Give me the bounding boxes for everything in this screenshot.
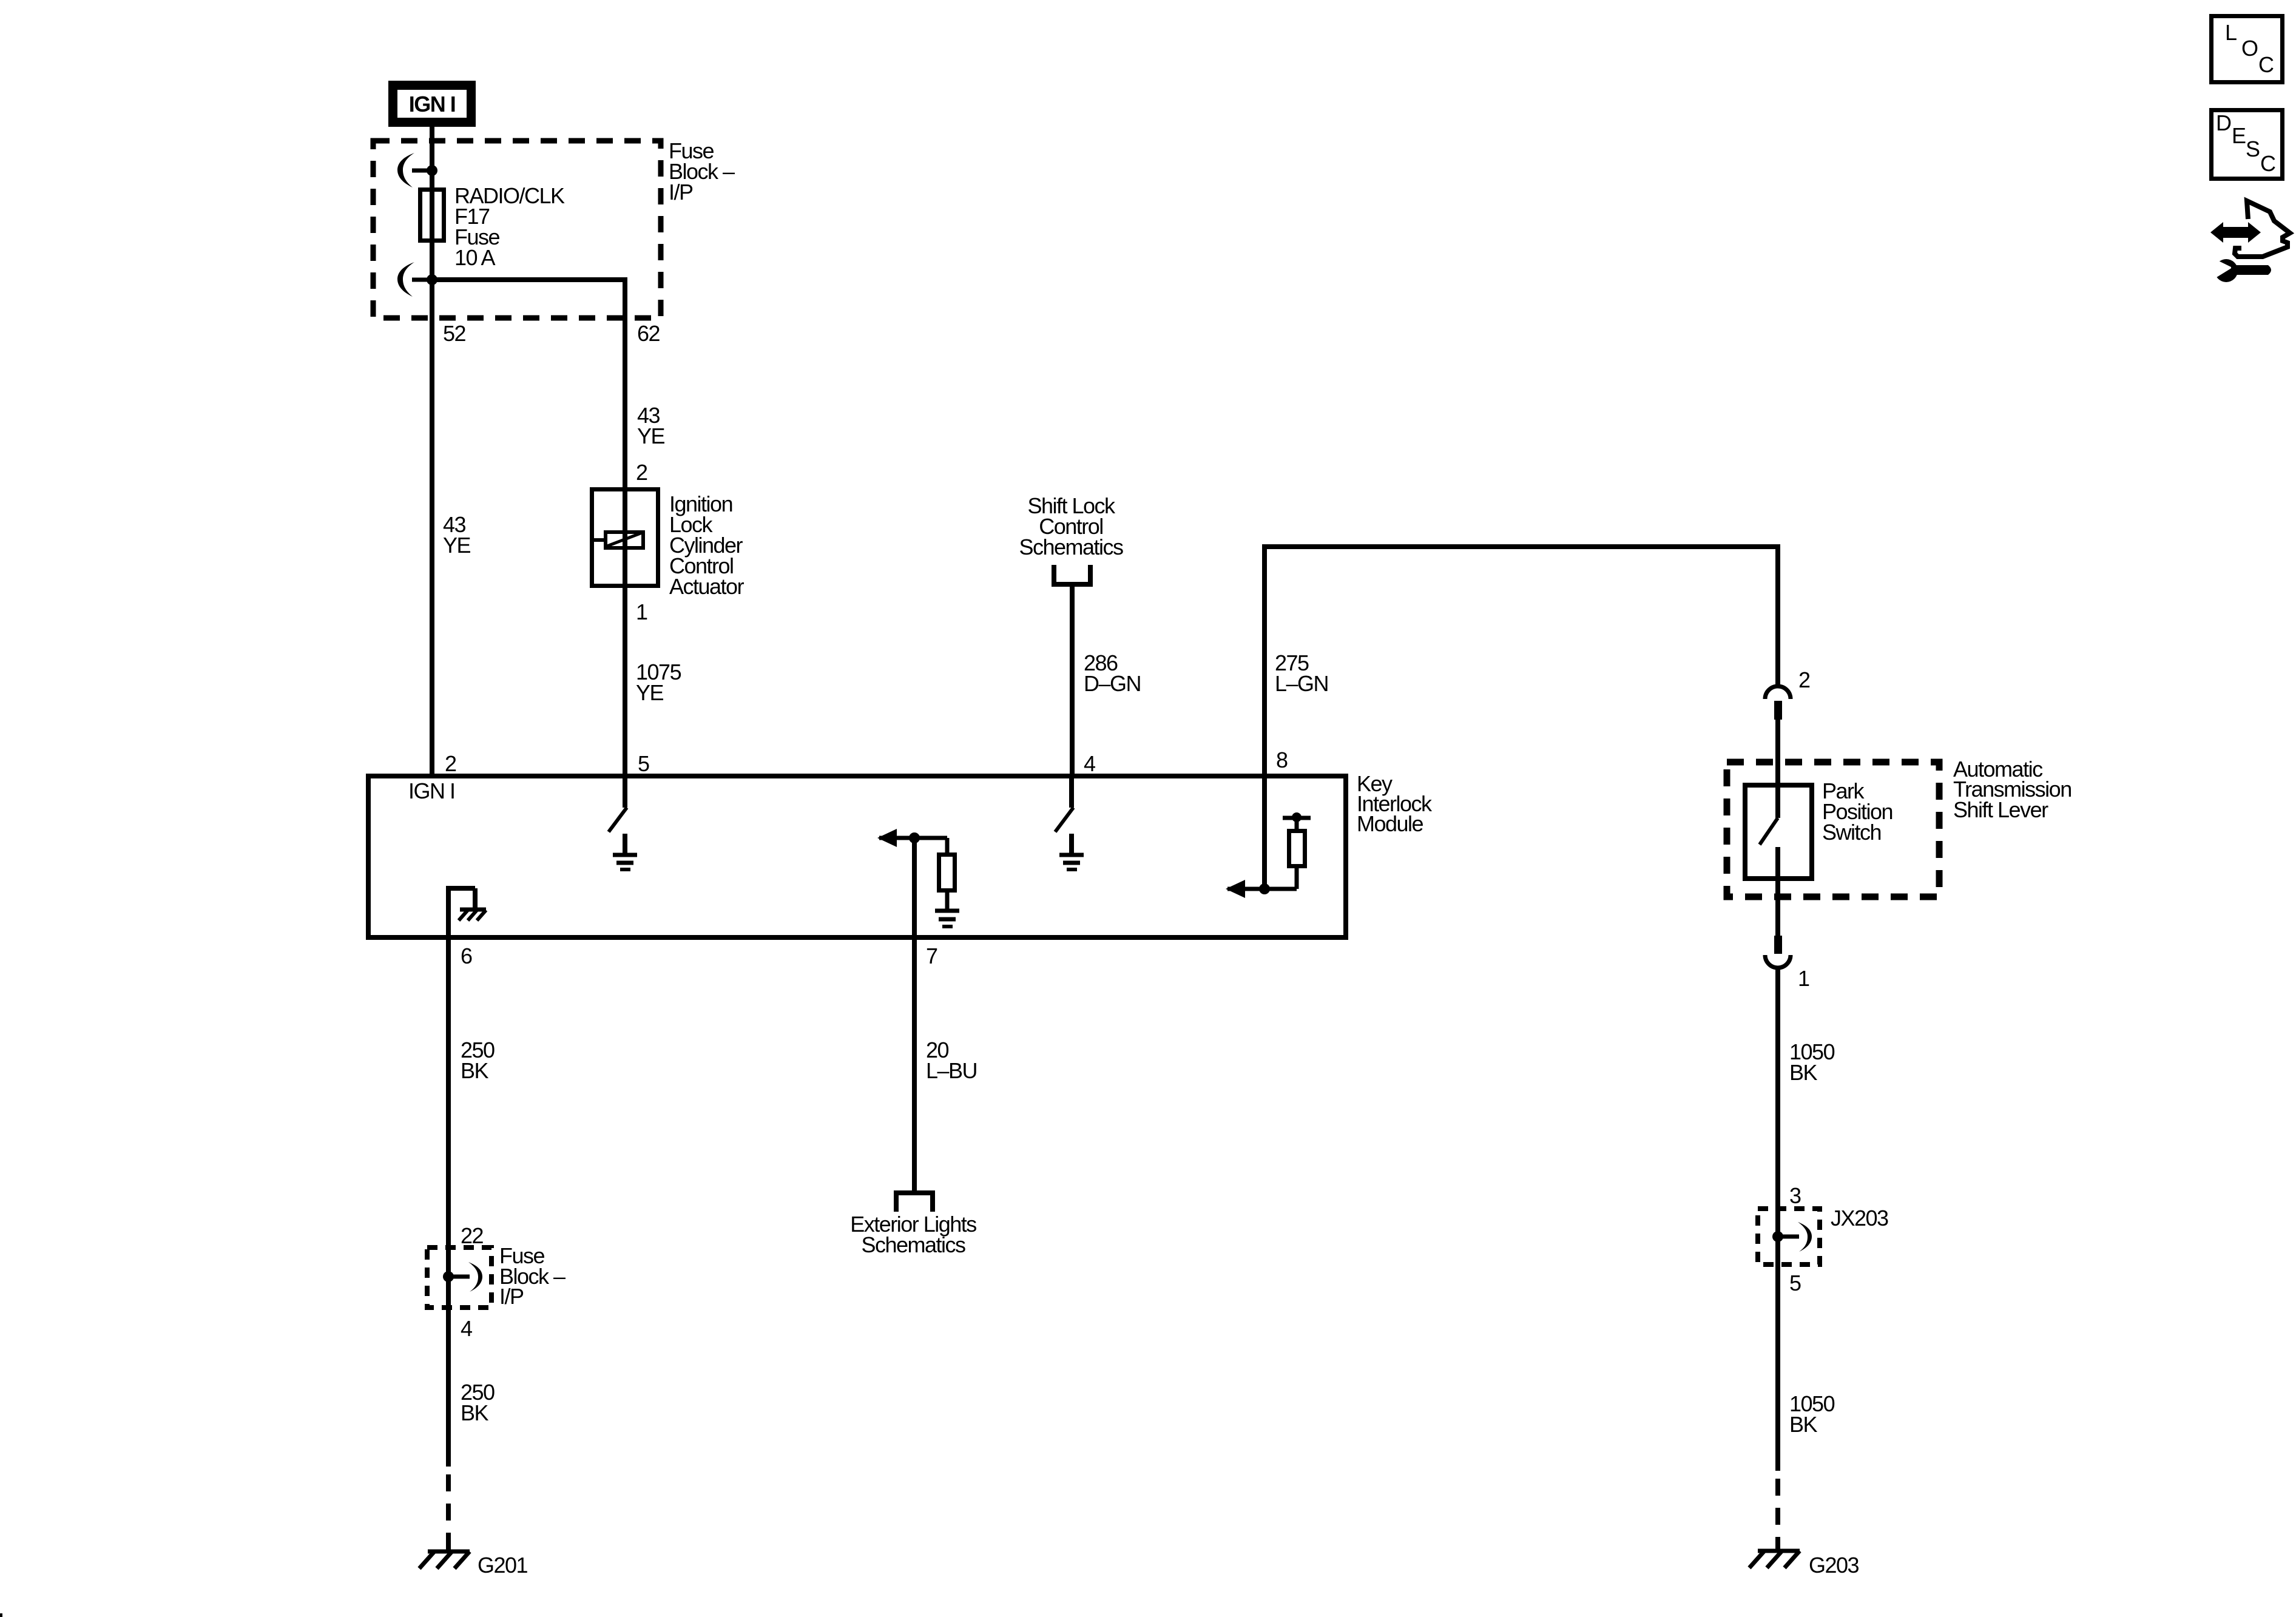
automatic transmission shift lever dashed box (1727, 762, 1939, 897)
pin 6 label below module (461, 944, 472, 968)
svg-text:I/P: I/P (669, 180, 693, 204)
legend box DESC (2212, 110, 2283, 179)
svg-text:8: 8 (1276, 748, 1288, 772)
svg-text:G201: G201 (478, 1553, 528, 1578)
pin 7 label below module (926, 944, 937, 968)
svg-text:IGN I: IGN I (408, 778, 455, 803)
wire label 1075 YE (636, 660, 681, 705)
wire label 1050 BK (lower) (1789, 1391, 1835, 1437)
svg-text:Module: Module (1357, 811, 1423, 836)
wire circuit 275 L-GN (module pin 8 to park switch) (1262, 544, 1778, 889)
svg-text:C: C (2258, 52, 2274, 77)
svg-text:5: 5 (638, 751, 649, 776)
wire circuit 62 (fuse to actuator) (432, 277, 625, 487)
pin 2 label actuator (636, 460, 647, 485)
svg-text:Schematics: Schematics (1019, 535, 1123, 559)
junction block JX203 dashed box (1758, 1209, 1820, 1264)
label Key Interlock Module (1357, 771, 1433, 836)
svg-text:YE: YE (637, 424, 665, 448)
svg-text:2: 2 (636, 460, 647, 485)
node junction dot pin 8 net (1259, 883, 1270, 894)
svg-text:BK: BK (461, 1400, 489, 1425)
svg-text:D–GN: D–GN (1084, 671, 1141, 696)
connector clamp at fuse input (397, 153, 432, 187)
wire circuit 286 D-GN (to module pin 4) (1070, 584, 1075, 776)
svg-text:G203: G203 (1809, 1553, 1859, 1578)
wire label 1050 BK (upper) (1789, 1039, 1835, 1085)
node junction dot in lower fuse block (443, 1271, 454, 1282)
svg-text:IGN I: IGN I (409, 92, 456, 116)
svg-text:YE: YE (636, 680, 664, 705)
power tag IGN I (393, 86, 471, 123)
wire pin 7 internal with junction (912, 838, 917, 937)
svg-text:2: 2 (1798, 667, 1810, 692)
pin 5 label JX203 (1789, 1271, 1801, 1295)
connector clamp in JX203 (1778, 1222, 1812, 1252)
svg-text:10 A: 10 A (454, 245, 496, 270)
svg-text:BK: BK (1789, 1412, 1818, 1437)
internal rail tee at pin 8 resistor (1283, 812, 1311, 831)
arrow output at pin 7 net (877, 829, 947, 847)
legend box LOC (2212, 16, 2283, 83)
fuse block I/P dashed box (top) (373, 141, 661, 318)
label JX203 (1831, 1206, 1888, 1230)
label Fuse Block - I/P (lower) (499, 1243, 566, 1309)
resistor inside module (pin 8 net) (1289, 831, 1305, 890)
off-page reference Exterior Lights Schematics (850, 1193, 976, 1257)
svg-text:Schematics: Schematics (861, 1232, 965, 1257)
svg-text:62: 62 (637, 321, 660, 346)
wire circuit 1050 BK (JX203 to G203) (1775, 1237, 1780, 1471)
legend icon hand outline (2235, 201, 2290, 257)
label Ignition Lock Cylinder Control Actuator (669, 491, 745, 599)
wire circuit 20 L-BU (module pin 7 down) (912, 937, 917, 1193)
fuse RADIO/CLK F17 10A (420, 183, 566, 280)
pin 4 label fuse block (461, 1316, 472, 1341)
svg-text:L–BU: L–BU (926, 1058, 977, 1083)
ground G201 (419, 1551, 528, 1578)
key interlock module box (368, 776, 1346, 937)
pin 52 label (443, 321, 466, 346)
node junction dot in JX203 (1772, 1231, 1783, 1242)
pin 2 label module (445, 751, 456, 776)
wire label 250 BK (lower) (461, 1380, 495, 1425)
arrow output at pin 8 net (1226, 880, 1297, 898)
switch element inside park position switch (1760, 785, 1778, 879)
wire label 275 L-GN (1275, 650, 1328, 696)
svg-text:4: 4 (1084, 751, 1095, 776)
earth ground at pin 5 switch (613, 834, 637, 869)
svg-text:BK: BK (461, 1058, 489, 1083)
ground G203 (1749, 1551, 1859, 1578)
svg-text:2: 2 (445, 751, 456, 776)
pin 3 label JX203 (1789, 1183, 1801, 1208)
svg-text:5: 5 (1789, 1271, 1801, 1295)
fuse block I/P dashed box (lower) (427, 1247, 491, 1308)
connector clamp in lower fuse block (448, 1262, 482, 1292)
svg-text:1: 1 (636, 599, 647, 624)
svg-text:S: S (2246, 137, 2260, 161)
wire pin 2 into park switch (1775, 720, 1780, 788)
wire circuit 52 (fuse to module pin 2) (430, 280, 434, 776)
ignition lock cylinder control actuator box (592, 487, 658, 588)
earth ground at pin 4 switch (1059, 834, 1084, 869)
node junction dot pin 7 net (909, 832, 920, 843)
wire label 43 YE (right) (637, 403, 665, 448)
solenoid symbol inside actuator (590, 532, 643, 548)
node junction dot at fuse output (427, 274, 437, 285)
stray dot bottom-left corner (0, 1613, 2, 1617)
svg-text:JX203: JX203 (1831, 1206, 1888, 1230)
svg-text:Actuator: Actuator (669, 574, 745, 599)
svg-text:L–GN: L–GN (1275, 671, 1328, 696)
label Automatic Transmission Shift Lever (1953, 757, 2071, 822)
off-page reference Shift Lock Control Schematics (1019, 493, 1123, 584)
dashed wire to G203 (1775, 1479, 1780, 1550)
earth ground below resistor (pin 7 net) (935, 911, 959, 927)
park position switch box (1745, 785, 1812, 879)
wire IGN I to fuse F17 (430, 127, 434, 189)
svg-text:22: 22 (461, 1223, 484, 1248)
switch to ground at pin 4 (1055, 776, 1073, 832)
wire label 286 D-GN (1084, 650, 1141, 696)
wire circuit 1050 BK (park switch to JX203) (1775, 968, 1780, 1234)
resistor inside module (pin 7 net) (939, 838, 955, 910)
svg-text:1: 1 (1798, 966, 1809, 991)
chassis ground hook at pin 6 (446, 888, 486, 937)
svg-text:C: C (2260, 151, 2275, 176)
pin 2 label park switch (1798, 667, 1810, 692)
pin 22 label fuse block (461, 1223, 484, 1248)
switch to ground at pin 5 (609, 776, 627, 832)
svg-text:L: L (2225, 20, 2237, 45)
svg-text:O: O (2241, 36, 2258, 61)
node junction dot at fuse input (427, 165, 437, 176)
svg-text:6: 6 (461, 944, 472, 968)
pin 62 label (637, 321, 660, 346)
svg-text:BK: BK (1789, 1060, 1818, 1085)
inline connector at park switch pin 2 (1765, 686, 1791, 720)
legend icon wrench (2206, 255, 2271, 282)
svg-text:D: D (2216, 110, 2231, 135)
svg-text:Switch: Switch (1822, 820, 1881, 845)
svg-text:Shift Lever: Shift Lever (1953, 797, 2048, 822)
inline connector at park switch pin 1 (1765, 936, 1791, 968)
svg-text:3: 3 (1789, 1183, 1801, 1208)
svg-text:4: 4 (461, 1316, 472, 1341)
svg-text:7: 7 (926, 944, 937, 968)
wire label 250 BK (upper) (461, 1038, 495, 1083)
svg-text:I/P: I/P (499, 1284, 524, 1309)
dashed wire to G201 (446, 1474, 451, 1551)
pin 8 label module (1276, 748, 1288, 772)
label Park Position Switch (1822, 778, 1893, 845)
svg-text:52: 52 (443, 321, 466, 346)
label Fuse Block - I/P (top) (669, 138, 735, 204)
pin 4 label module (1084, 751, 1095, 776)
wire circuit 1075 YE (actuator to module pin 5) (623, 588, 627, 776)
wire circuit 250 BK (module pin 6 down) (446, 937, 451, 1274)
svg-text:YE: YE (443, 533, 471, 558)
wire park switch to pin 1 connector (1775, 879, 1780, 936)
pin 1 label park switch (1798, 966, 1809, 991)
svg-text:E: E (2232, 123, 2246, 148)
wire label 43 YE (left) (443, 512, 471, 558)
wire label 20 L-BU (926, 1038, 977, 1083)
net label IGN I inside module (408, 778, 455, 803)
pin 1 label actuator (636, 599, 647, 624)
legend icon double arrow (2210, 222, 2261, 243)
pin 5 label module (638, 751, 649, 776)
wire circuit 250 BK (fuse block to G201) (446, 1277, 451, 1467)
connector clamp at fuse output (397, 262, 432, 297)
